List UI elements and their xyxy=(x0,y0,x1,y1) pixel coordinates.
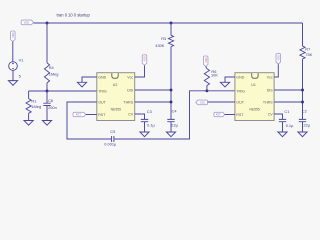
wire U1 GND stub xyxy=(225,77,235,82)
svg-text:OUT: OUT xyxy=(236,100,244,104)
svg-text:5: 5 xyxy=(19,74,21,79)
wire R6 to TRIG2 xyxy=(206,86,208,91)
svg-text:C5: C5 xyxy=(110,129,115,134)
svg-text:CV: CV xyxy=(128,112,134,116)
svg-text:NE555: NE555 xyxy=(249,108,259,112)
net flag VDD (above R6) xyxy=(203,56,208,66)
net flag OSC (U1 OUT) xyxy=(196,100,208,105)
resistor R7 xyxy=(300,46,305,59)
net flag RST (U2) xyxy=(73,112,86,116)
node junction R6/TRIG2 xyxy=(205,89,208,92)
svg-text:430K: 430K xyxy=(155,43,164,48)
wire rail to R3 xyxy=(170,23,172,35)
svg-text:U2: U2 xyxy=(113,83,118,87)
svg-text:VDD: VDD xyxy=(143,56,147,62)
wire U2 DIS xyxy=(135,89,171,91)
svg-text:C6: C6 xyxy=(48,98,53,103)
ground under R1 xyxy=(24,121,33,126)
capacitor C6 xyxy=(43,103,50,105)
wire rail right drop to R7 xyxy=(302,23,304,46)
wire U1 THRS xyxy=(274,101,302,103)
wire OSC flag to U1 OUT xyxy=(208,101,235,103)
wire R7 to DIS/THRS node xyxy=(302,59,304,119)
wire U2 GND stub xyxy=(82,77,97,82)
svg-text:TRIG: TRIG xyxy=(98,89,107,93)
net flag VDD (above U1 Vcc) xyxy=(276,54,281,64)
svg-text:VDD: VDD xyxy=(204,57,208,63)
svg-text:22µ: 22µ xyxy=(171,122,178,127)
svg-text:RST: RST xyxy=(216,113,222,117)
wire R1 to ground xyxy=(28,113,30,120)
wire C6 to ground xyxy=(46,106,48,121)
wire TRIG rail to C6 xyxy=(46,91,48,103)
wire VDD rail to R4 xyxy=(46,23,48,63)
wire U2 OUT feedback to C5 xyxy=(67,102,112,139)
svg-text:TRIG: TRIG xyxy=(236,89,245,93)
ground under C4 xyxy=(166,132,175,137)
capacitor C4 xyxy=(167,119,174,121)
svg-text:THRS: THRS xyxy=(263,100,273,104)
wire U1 Vcc stub xyxy=(274,64,278,77)
node junction THRS1 xyxy=(170,101,173,104)
svg-text:NE555: NE555 xyxy=(111,108,121,112)
svg-text:75K: 75K xyxy=(305,52,312,57)
wire C2 to ground xyxy=(302,122,304,132)
ground under V1 xyxy=(8,81,17,86)
node junction DIS1 xyxy=(170,89,173,92)
svg-text:U1: U1 xyxy=(251,83,256,87)
ground under C2 xyxy=(298,132,307,137)
wire U2 THRS xyxy=(135,101,171,103)
node junction R4/C6/TRIG xyxy=(46,90,49,93)
svg-text:RST: RST xyxy=(76,113,82,117)
capacitor C1 xyxy=(279,119,286,121)
svg-text:GND: GND xyxy=(98,75,106,79)
wire R4 to TRIG rail xyxy=(46,83,48,91)
svg-text:V1: V1 xyxy=(19,58,24,63)
wire V1 top xyxy=(12,42,14,62)
svg-text:C4: C4 xyxy=(172,109,178,114)
wire U2 CV stub xyxy=(135,114,145,119)
svg-text:10K: 10K xyxy=(211,72,218,77)
U2 notch xyxy=(112,73,118,78)
svg-text:1Meg: 1Meg xyxy=(31,104,41,109)
svg-text:DIS: DIS xyxy=(127,88,134,92)
svg-text:1Meg: 1Meg xyxy=(49,71,59,76)
svg-text:OUT: OUT xyxy=(98,100,106,104)
wire C3 to ground xyxy=(144,122,146,132)
wire U1 CV stub xyxy=(274,114,282,119)
net flag VDD (above U2 Vcc) xyxy=(142,55,147,65)
wire U1 DIS xyxy=(274,89,302,91)
svg-text:RST: RST xyxy=(98,113,106,117)
net flag VDD (top-left rail) xyxy=(21,20,33,25)
svg-text:CV: CV xyxy=(268,112,274,116)
capacitor C2 xyxy=(299,119,306,121)
svg-text:VDD: VDD xyxy=(24,21,30,25)
svg-text:R3: R3 xyxy=(161,36,166,41)
svg-text:Vcc: Vcc xyxy=(127,75,133,79)
net flag VDD (above V1) xyxy=(11,31,16,42)
svg-text:OSC: OSC xyxy=(200,101,206,105)
ground under C6 xyxy=(42,121,51,126)
wire down to R1 xyxy=(28,91,30,99)
svg-text:200n: 200n xyxy=(48,105,57,110)
svg-text:THRS: THRS xyxy=(123,100,133,104)
svg-text:Vcc: Vcc xyxy=(267,75,273,79)
svg-text:C1: C1 xyxy=(284,109,289,114)
op IC U2 NE555 body xyxy=(97,73,135,121)
wire C5 to U1 TRIG xyxy=(114,91,235,139)
wire RST flag to U1 xyxy=(225,114,235,116)
svg-text:R4: R4 xyxy=(49,65,55,70)
wire V1 bottom xyxy=(12,70,14,80)
node junction DIS2 xyxy=(301,89,304,92)
op IC U1 NE555 body xyxy=(235,73,274,121)
svg-text:C3: C3 xyxy=(147,109,152,114)
svg-text:0.1µ: 0.1µ xyxy=(286,123,294,128)
net flag RST (U1) xyxy=(214,112,225,116)
node junction on rail above R3 xyxy=(170,22,173,25)
ground at U2 GND xyxy=(77,82,86,87)
ground under C1 xyxy=(278,132,287,137)
wire R3 to DIS/THRS node xyxy=(170,47,172,120)
resistor R6 xyxy=(204,69,209,86)
svg-text:22µ: 22µ xyxy=(304,122,311,127)
voltage source V1 xyxy=(9,62,18,71)
node junction on rail above R4 xyxy=(46,22,49,25)
ground at U1 GND xyxy=(220,82,229,87)
node junction THRS2 xyxy=(301,101,304,104)
svg-text:GND: GND xyxy=(236,75,244,79)
resistor R4 xyxy=(44,63,49,83)
U1 notch xyxy=(252,73,258,78)
svg-text:0.001µ: 0.001µ xyxy=(104,142,117,147)
capacitor C3 xyxy=(141,119,148,121)
resistor R1 xyxy=(26,99,31,114)
resistor R3 xyxy=(168,35,173,46)
svg-text:VDD: VDD xyxy=(11,32,15,38)
svg-text:R1: R1 xyxy=(31,98,36,103)
wire RST flag to U2 xyxy=(86,114,97,116)
wire U2 Vcc stub xyxy=(135,65,145,77)
wire flag to R6 xyxy=(206,66,207,68)
svg-text:C2: C2 xyxy=(302,108,307,113)
ground under C3 xyxy=(140,132,149,137)
svg-text:tran 0 10 0 startup: tran 0 10 0 startup xyxy=(57,12,91,17)
svg-text:RST: RST xyxy=(236,113,244,117)
svg-text:VDD: VDD xyxy=(276,55,280,61)
wire TRIG rail (left) xyxy=(29,90,97,92)
wire top VDD rail xyxy=(34,22,303,24)
capacitor C5 (series) xyxy=(112,136,114,142)
svg-text:0.1µ: 0.1µ xyxy=(147,123,155,128)
wire C1 to ground xyxy=(282,122,284,132)
svg-text:DIS: DIS xyxy=(267,88,274,92)
wire C4 to ground xyxy=(170,122,172,132)
